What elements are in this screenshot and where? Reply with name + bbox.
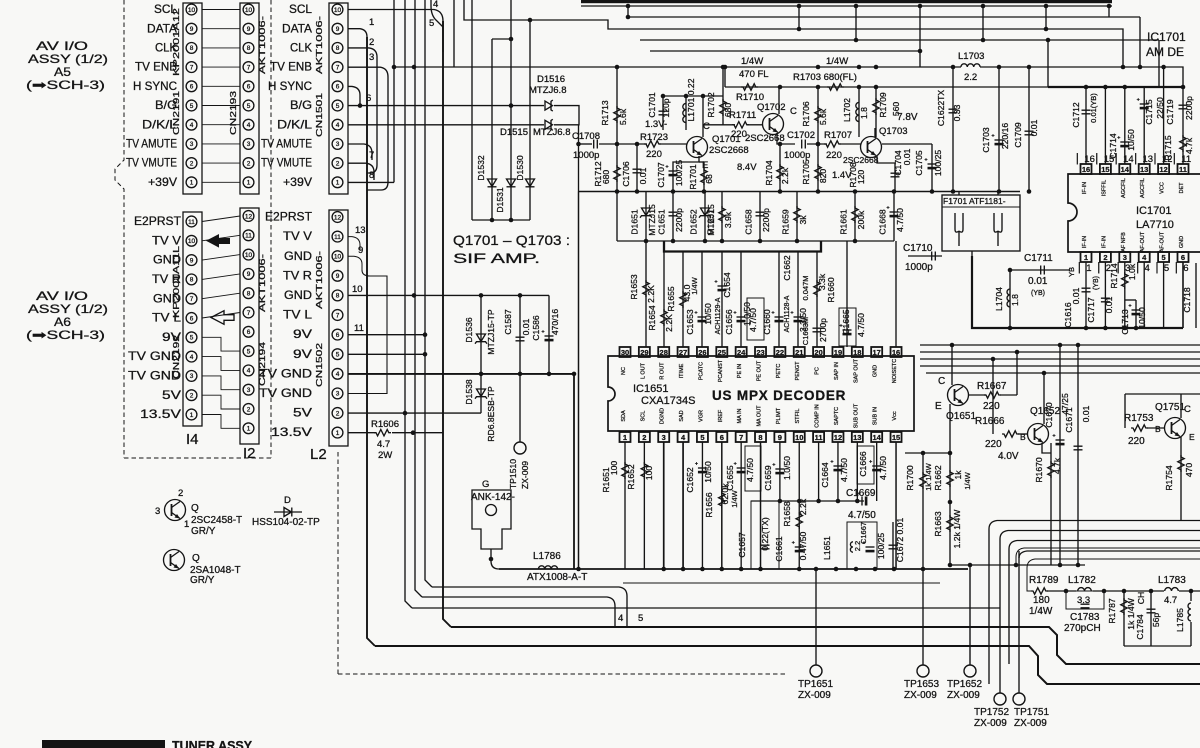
test point TP1653 [917,665,929,677]
riser x628 [627,6,629,17]
svg-text:ACH1128-A: ACH1128-A [784,295,791,332]
zener diode D1651 [640,208,652,218]
svg-text:IF-IN: IF-IN [1082,182,1088,194]
svg-text:10: 10 [334,254,342,261]
svg-text:12: 12 [1159,165,1167,174]
riser x983 [982,6,984,40]
svg-text:220: 220 [826,150,842,161]
junction [509,103,514,108]
svg-text:4.7: 4.7 [1164,595,1177,606]
svg-text:4.7/50: 4.7/50 [745,458,755,482]
svg-text:C1671: C1671 [1064,407,1074,433]
junction [981,38,986,43]
junction [948,451,953,456]
junction bus y67 [951,65,956,70]
resistor R1709 [873,98,879,115]
resistor R1707 [824,141,841,147]
svg-text:▏6: ▏6 [1175,261,1189,274]
svg-text:7: 7 [369,150,374,161]
capacitor C1653 [695,311,707,322]
wire CN2191-CN2193 [202,143,240,145]
svg-text:COMP IN: COMP IN [815,404,821,427]
resistor R1713 [614,106,620,123]
svg-text:R1714: R1714 [1109,263,1119,289]
svg-text:PENGT: PENGT [795,361,801,381]
bus corner y587 [432,587,627,627]
svg-text:E2PRST: E2PRST [265,210,313,224]
bus wire x415 [415,0,422,597]
junction bus y241 [671,239,676,244]
svg-text:PLIMT: PLIMT [776,407,782,424]
svg-text:100/25: 100/25 [876,533,886,560]
resistor R1711 [732,122,749,128]
IC1651 pin 24 [736,347,747,357]
wire Q1652 emitter [1042,443,1051,453]
IC1651 pin 30 [620,347,631,357]
svg-text:(YB): (YB) [1093,276,1100,290]
svg-text:MA OUT: MA OUT [757,405,763,427]
svg-text:0.01: 0.01 [1029,119,1039,136]
wire C1587 col [519,295,521,374]
svg-text:5: 5 [429,18,434,29]
wire R1714 col [1124,262,1126,328]
svg-text:10: 10 [334,7,342,14]
svg-text:MTZJ15-TP: MTZJ15-TP [486,309,496,355]
junction bus y569 [921,567,926,572]
white arrow TV L [211,311,234,325]
bus y366 [920,365,1200,367]
svg-text:(YB): (YB) [1031,290,1045,297]
junction bus y67 [857,65,862,70]
L2 pin 5 [332,349,343,360]
IC1651 pin 1 [620,432,631,442]
svg-text:5: 5 [190,103,194,110]
wire TP1651 col [815,569,817,665]
svg-text:9: 9 [778,433,782,442]
svg-text:L2: L2 [310,446,327,463]
diode D1531 [507,179,516,187]
svg-text:9: 9 [336,26,340,33]
svg-text:F1701 ATF1181-: F1701 ATF1181- [943,196,1006,206]
junction [572,372,577,377]
transistor Q1703 [861,137,882,158]
IC1701 pin 16 [1081,164,1092,174]
junction [1149,589,1154,594]
wire L2 pin6 [348,334,425,336]
CN1501 pin 8 [332,43,343,54]
wire L2 pin9-pin3 loop [348,270,387,394]
svg-text:10/50: 10/50 [703,303,713,325]
resistor R1656 [719,491,725,508]
svg-text:5: 5 [638,613,643,624]
svg-text:8: 8 [758,433,762,442]
bus corner y608 [412,607,1000,609]
svg-text:4: 4 [618,613,623,624]
svg-text:680: 680 [601,170,611,185]
capacitor C1657 [761,545,770,549]
wire C1616 col [1085,262,1087,328]
svg-text:C1712: C1712 [1071,102,1081,128]
svg-text:R1606: R1606 [371,419,399,430]
resistor R1702 [720,99,726,116]
CN2193 pin 2 [243,158,254,169]
svg-text:MTZJ15: MTZJ15 [647,204,657,236]
junction gnd [1084,326,1089,331]
I2 pin 12 [243,211,254,222]
bus y359 [920,358,1200,360]
svg-text:3: 3 [662,433,666,442]
svg-text:0.01: 0.01 [1104,296,1114,313]
svg-text:R1662: R1662 [933,465,943,491]
wire pin6 col [721,442,723,569]
svg-text:Q: Q [191,503,199,514]
connector L2 body [329,210,348,446]
wire C1622 col [952,67,954,192]
cascade c2 [1000,531,1200,540]
wire +39V vertical x394 [393,0,395,182]
svg-text:TV V: TV V [283,229,312,243]
svg-text:8: 8 [190,277,194,284]
L2 pin 6 [332,329,343,340]
transistor Q1702 [763,114,784,135]
svg-text:C1587: C1587 [503,309,513,335]
svg-text:1.0/50: 1.0/50 [782,456,792,480]
svg-text:TP1751: TP1751 [1014,707,1049,718]
svg-text:0.01(YB): 0.01(YB) [1089,93,1098,123]
svg-text:4.7/50: 4.7/50 [856,313,866,337]
svg-text:16: 16 [892,348,900,357]
svg-text:ASSY (1/2): ASSY (1/2) [28,52,108,66]
I2 pin 5 [243,346,254,357]
svg-text:TV R: TV R [283,268,312,282]
IC1651 pin 7 [736,432,747,442]
junction bus y67 [615,65,620,70]
junction [479,293,484,298]
svg-text:R1704: R1704 [764,160,774,186]
wire x950 col [949,404,951,565]
resistor R1789 [1031,588,1048,594]
F1701 title divider [942,206,1020,208]
svg-text:1/4W: 1/4W [826,56,848,67]
IC1651 pin 2 [639,432,650,442]
resistor R1658 [796,512,802,529]
svg-text:0.01: 0.01 [1028,276,1048,287]
junction [1058,563,1063,568]
black arrow TV V [206,234,230,248]
svg-text:1: 1 [247,426,251,433]
junction bus y569 [758,567,763,572]
I4 pin 10 [186,235,197,246]
svg-text:VCC: VCC [1160,182,1166,194]
CN2191 pin 2 [186,158,197,169]
wire pin10 col [798,442,800,569]
cascade c3 [1009,541,1200,665]
wire C1710 row [908,255,942,257]
svg-text:C1715: C1715 [1144,99,1154,125]
wire C1660 column [778,252,780,348]
svg-text:C1706: C1706 [621,161,631,187]
junction [1102,589,1107,594]
wire column R1661 [854,192,856,242]
capacitor C1670 [1053,434,1065,445]
IC IC1701 body [1068,174,1200,252]
CN2191 pin 10 [186,4,197,15]
svg-text:C1666: C1666 [858,451,868,477]
zener diode D1515 [545,119,553,130]
dashed border L2 right [337,452,339,674]
capacitor C1666 [869,460,881,471]
svg-text:R1657: R1657 [706,209,716,235]
IC1651 pin 3 [658,432,669,442]
svg-text:100/25: 100/25 [933,150,943,177]
svg-text:30: 30 [621,348,629,357]
svg-text:220: 220 [646,149,662,160]
svg-text:CN2192: CN2192 [171,335,181,379]
svg-text:470/16: 470/16 [550,309,560,336]
svg-text:CH: CH [1136,592,1146,604]
I4 pin 5 [186,332,197,343]
IC1701 pin 6 [1178,252,1189,262]
wire pin14 col [876,442,878,501]
junction [412,65,417,70]
wire column C1651 [672,192,674,242]
svg-text:R1660: R1660 [826,277,836,303]
svg-text:R1655: R1655 [666,286,676,312]
svg-text:6: 6 [336,332,340,339]
svg-text:4.7/50: 4.7/50 [848,510,876,521]
IC1701 pin 13 [1139,164,1150,174]
CN2193 pin 7 [243,62,254,73]
wire x637 column [636,144,638,192]
svg-text:0.01: 0.01 [902,148,912,165]
svg-text:9: 9 [247,271,251,278]
bus wire x425 [425,0,432,587]
wire pin5 col (IC1701) [1163,262,1165,328]
svg-text:TV GND: TV GND [259,366,312,380]
svg-text:7: 7 [739,433,743,442]
svg-text:I4: I4 [186,431,199,448]
resistor R1705 [815,164,821,181]
wire CN1501 pin1 +39V [348,181,394,183]
wire C1586 col [548,295,550,374]
CN1501 pin 1 [332,177,343,188]
riser x799 [798,6,800,29]
wire R1606 right [392,432,443,434]
junction bus y241 [720,239,725,244]
I4 pin 1 [186,409,197,420]
svg-text:HSS104-02-TP: HSS104-02-TP [252,517,320,528]
svg-text:0.01: 0.01 [1081,405,1091,422]
svg-text:H SYNC: H SYNC [268,79,312,93]
svg-text:R1652: R1652 [626,464,636,490]
svg-text:AGCFIL: AGCFIL [1140,178,1146,198]
wire C1665 column [846,241,848,347]
bus parts bottom y646 [1124,645,1191,647]
IC1701 pin 2 [1100,252,1111,262]
wire C1703 col [998,67,1000,192]
IC1701 pin 4 [1139,252,1150,262]
CN1501 pin 10 [332,4,343,15]
junction [797,27,802,32]
wire column R1659 [796,192,798,242]
svg-text:L1701 0.22: L1701 0.22 [686,78,696,121]
svg-text:C1718: C1718 [1182,287,1192,313]
wire C1713 col [1135,300,1137,328]
CN1501 pin 9 [332,23,343,34]
svg-text:2: 2 [336,410,340,417]
inductor L1786 [538,566,557,569]
svg-text:GR/Y: GR/Y [190,575,215,586]
IC1651 pin 14 [871,432,882,442]
svg-text:R1787: R1787 [1107,598,1117,624]
wire CN1501 pin6 net6 [348,86,360,105]
svg-text:24: 24 [737,348,746,357]
wire L1783 out [1179,590,1200,592]
junction [874,85,879,90]
wire x1048 drop [1047,40,1049,87]
junction [778,142,783,147]
SIF ground bus y191.5 [579,191,1021,193]
bus wire x367 [367,37,375,646]
cascade c1 [989,521,1200,685]
svg-text:5: 5 [190,335,194,342]
resistor R1714 [1122,272,1128,289]
wire riser x993 (R1666) [992,359,994,434]
svg-text:PE IN: PE IN [737,364,743,378]
svg-text:MTZJ6.8: MTZJ6.8 [529,85,566,96]
inductor L1782 [1078,588,1092,591]
svg-text:1: 1 [623,433,627,442]
zener diode D1536 [475,334,487,344]
svg-text:8: 8 [336,45,340,52]
svg-text:D1536: D1536 [464,317,474,343]
I2 pin 10 [243,249,254,260]
diode D1532 [488,179,497,187]
svg-text:100: 100 [609,461,619,476]
svg-text:CN1502: CN1502 [314,343,324,387]
IC1651 pin 10 [794,432,805,442]
wire emitter to R1701 [699,161,704,163]
svg-text:1.8: 1.8 [859,107,869,119]
resistor R1655 [680,291,686,308]
svg-text:DATA: DATA [282,21,312,35]
svg-text:120p: 120p [661,98,671,117]
box C1665 [839,308,856,346]
svg-text:TP1510: TP1510 [508,459,518,489]
svg-text:D1515: D1515 [500,127,528,138]
svg-text:NOISETC: NOISETC [892,359,898,383]
diode legend lead [274,511,302,513]
svg-text:2: 2 [247,160,251,167]
wire CN2191-CN2193 [202,85,240,87]
wire L2 pin5 [348,353,425,355]
svg-text:1.2k 1/4W: 1.2k 1/4W [952,509,962,549]
junction bus y569 [661,567,666,572]
wire L1782 out [1093,590,1164,592]
svg-text:2SC2668: 2SC2668 [709,145,749,156]
I4 pin 7 [186,293,197,304]
junction [615,142,620,147]
IC1701 pin 15 [1100,164,1111,174]
svg-text:C: C [703,121,710,132]
svg-text:C1702: C1702 [787,130,815,141]
svg-text:D: D [284,495,291,506]
wire L2 pin4 audio bus [348,373,574,375]
svg-text:L1785: L1785 [1175,608,1185,632]
IC1701 pin 3 [1119,252,1130,262]
wire pin7 col [740,442,742,569]
resistor R1787 [1121,598,1127,615]
svg-text:IC1701: IC1701 [1147,30,1186,44]
svg-text:ZX-009: ZX-009 [904,690,937,701]
capacitor C1661 [792,541,804,552]
junction bus y191.5 [930,189,935,194]
svg-text:1.3V-: 1.3V- [645,119,667,130]
wire Q1701 emitter [673,156,699,192]
svg-text:C1652: C1652 [685,467,695,493]
svg-text:4.7/50: 4.7/50 [839,458,849,482]
svg-text:A6: A6 [54,315,71,329]
junction bus y569 [834,567,839,572]
IC1651 pin 4 [678,432,689,442]
junction [358,103,363,108]
svg-text:C1651: C1651 [657,209,667,235]
capacitor C1701 [659,111,668,115]
transistor Q1652 [1028,424,1049,445]
resistor R1666 [1002,431,1019,437]
diode column D1530 [529,20,531,220]
svg-text:8: 8 [336,293,340,300]
wire R1670 col [1050,443,1052,565]
svg-text:C1665: C1665 [841,309,851,335]
svg-text:SUB IN: SUB IN [873,407,879,425]
svg-text:CN2191: CN2191 [171,91,181,135]
svg-text:11: 11 [1179,165,1187,174]
capacitor C1651 [669,212,678,216]
svg-text:5: 5 [336,352,340,359]
junction bus y67 [721,65,726,70]
I4 pin 11 [186,216,197,227]
CN2191 pin 1 [186,177,197,188]
junction [576,142,581,147]
junction [509,37,514,42]
L2 pin 8 [332,290,343,301]
svg-text:12: 12 [834,433,842,442]
junction bus y67 [997,65,1002,70]
svg-text:3: 3 [190,373,194,380]
wire CN1501 pin4 to D1515 [348,124,544,126]
wire C1718 col [1195,263,1197,328]
svg-text:9V: 9V [293,327,312,341]
svg-text:VGR: VGR [698,410,704,422]
svg-text:CLK: CLK [290,41,312,55]
resistor R1657 [719,206,725,223]
svg-text:1: 1 [184,519,189,530]
ANK-142 hole [486,505,497,516]
junction bus y191.5 [778,189,783,194]
IC1701 pin 12 [1158,164,1169,174]
junction y375 [547,372,552,377]
connector CN2193 body [240,3,259,194]
svg-text:Q1702: Q1702 [757,102,786,113]
bus y345 [920,344,1200,346]
wire CN1501 pin9 net1 [348,29,367,37]
CN1501 pin 5 [332,100,343,111]
svg-text:AKT1006-: AKT1006- [257,254,267,312]
IC1701 pin 11 [1178,164,1189,174]
I2 pin 7 [243,307,254,318]
junction bus y241 [795,239,800,244]
